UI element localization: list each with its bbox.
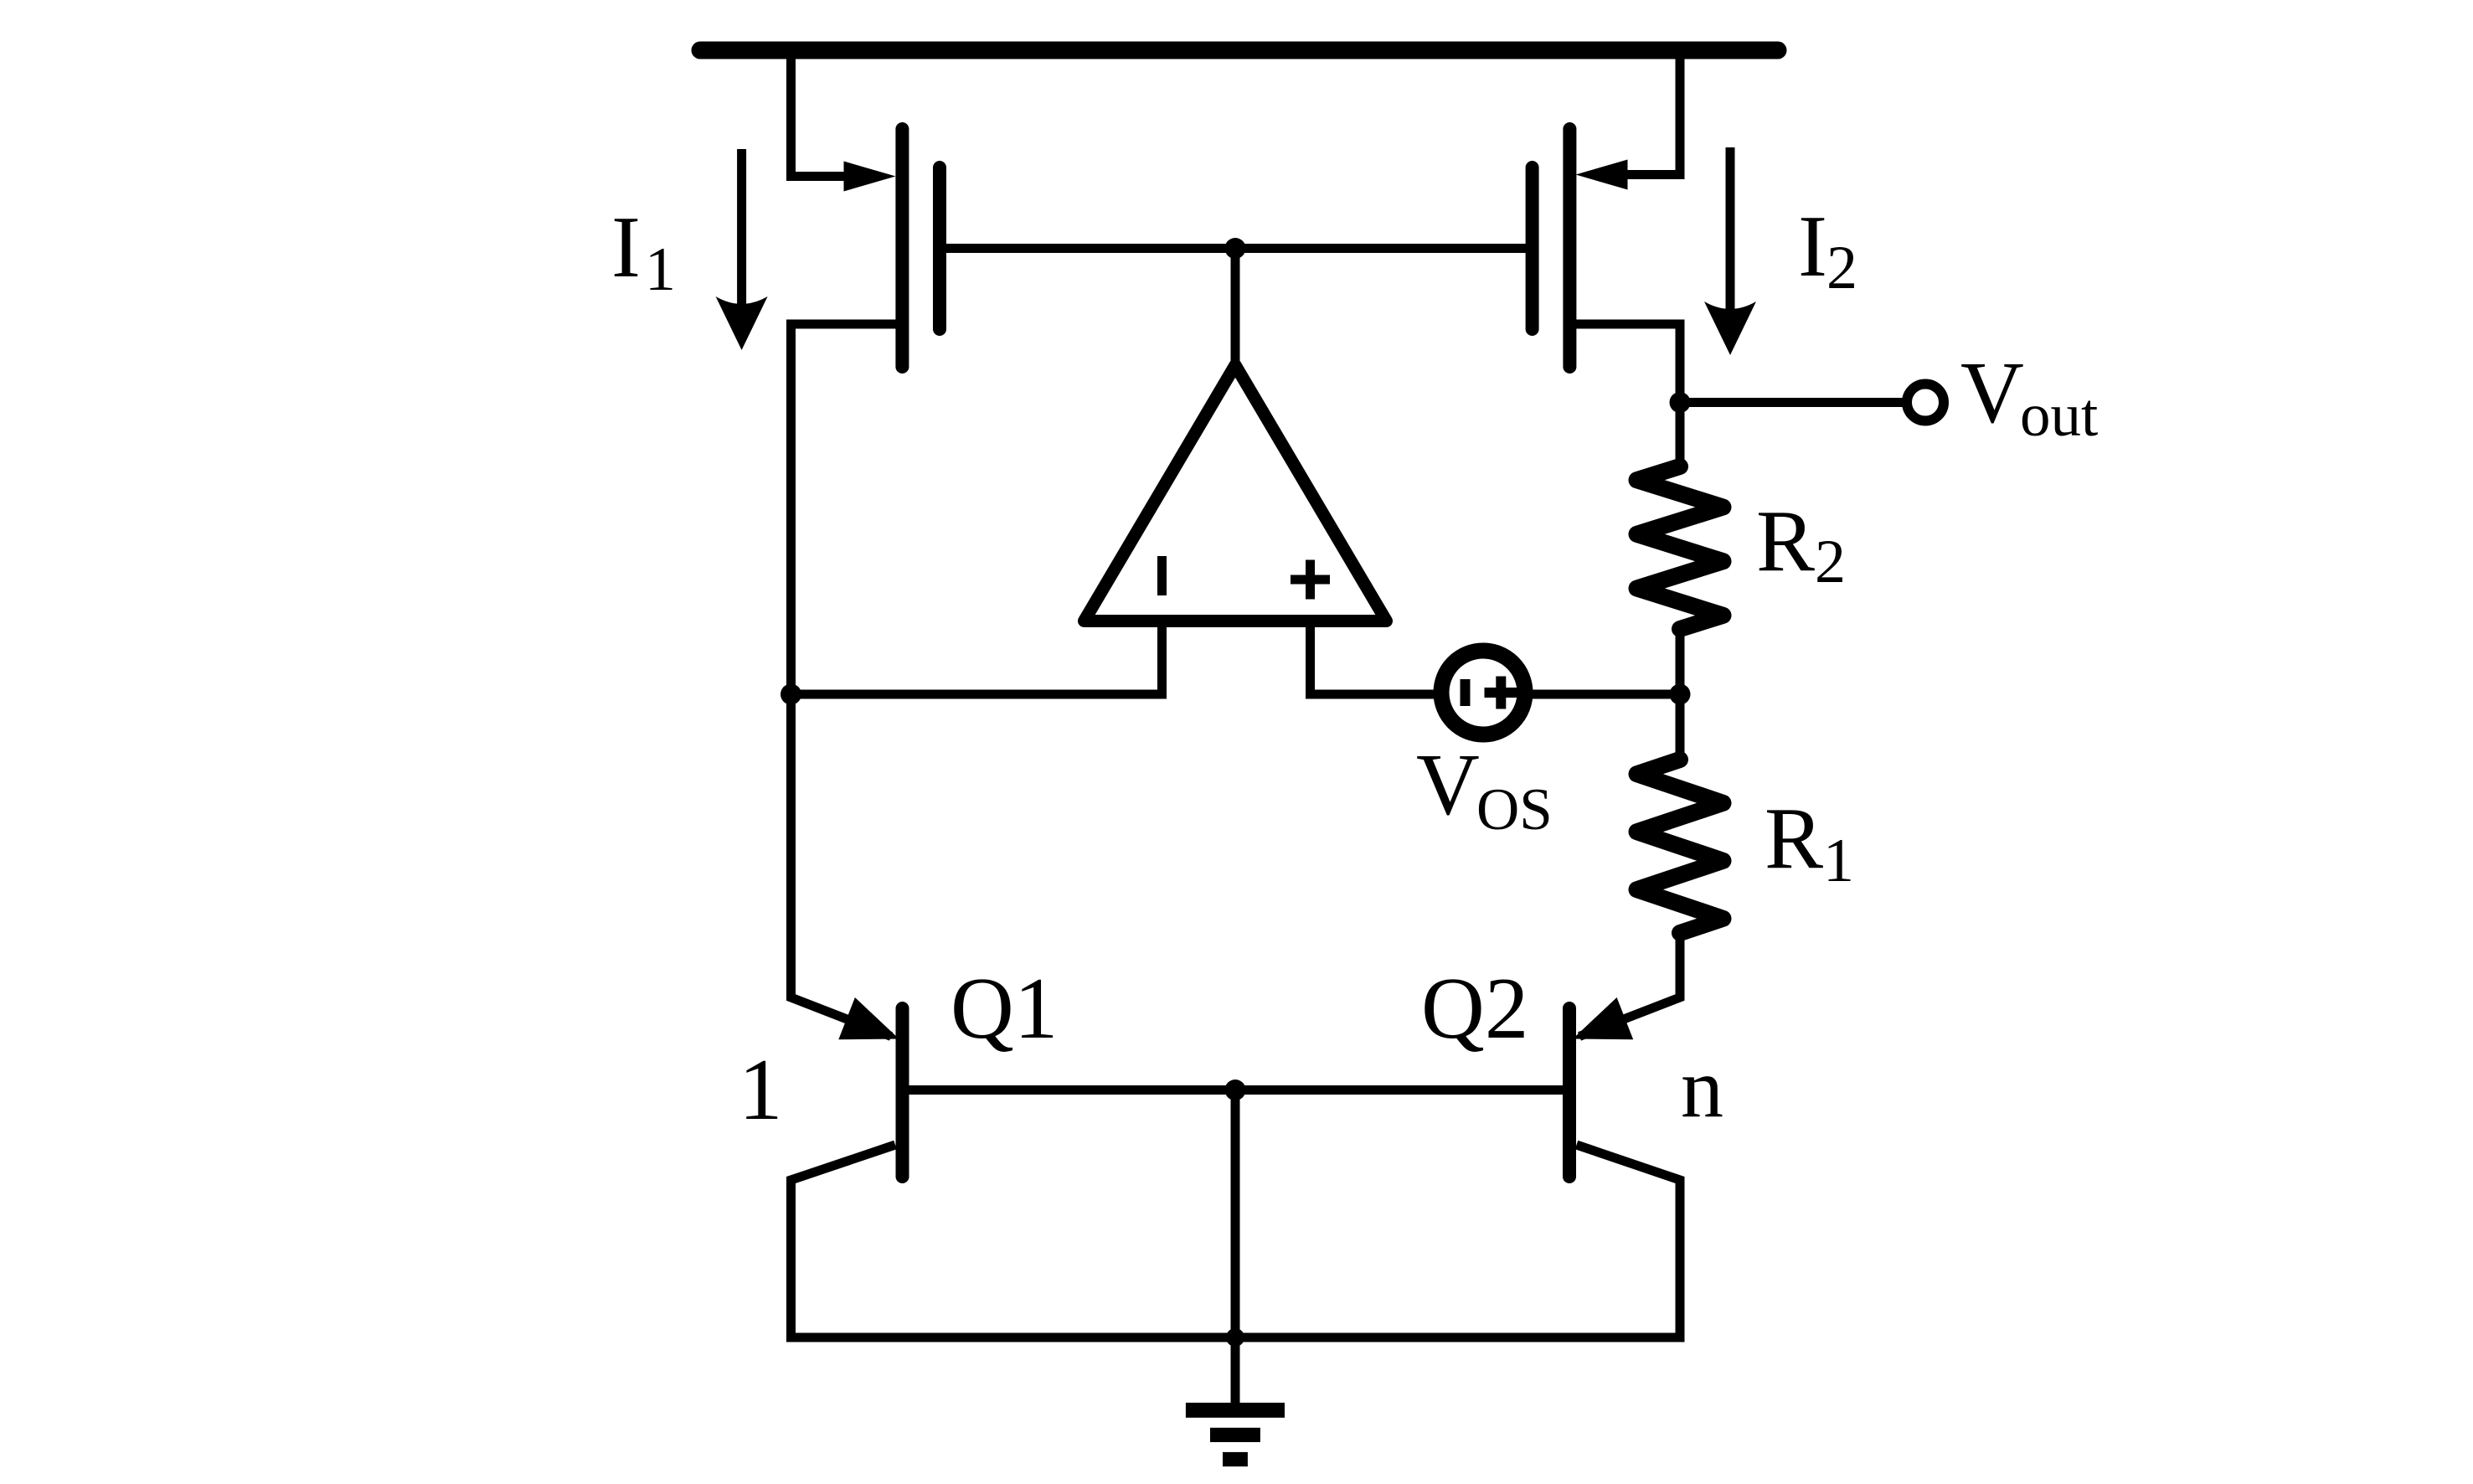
svg-text:OS: OS — [1476, 777, 1553, 842]
I2 current arrowhead — [1704, 301, 1756, 355]
I2 current arrow shaft — [1726, 147, 1735, 322]
voltage source VOS circle — [1441, 651, 1525, 734]
pmos M1 gate bar — [933, 167, 946, 329]
node Vout junction (M2 drain / R2) — [1670, 392, 1691, 413]
svg-text:I: I — [611, 198, 641, 296]
op-amp U1 triangle — [1085, 365, 1387, 621]
node gate net junction — [1225, 238, 1246, 259]
bjt Q2 bar — [1563, 1008, 1576, 1177]
wire M2 drain — [1576, 324, 1680, 403]
pmos M2 channel bar — [1563, 129, 1576, 367]
svg-text:I: I — [1798, 197, 1827, 295]
wire R2 to node B — [1676, 629, 1685, 694]
node bottom rail junction — [1226, 1328, 1244, 1347]
wire op-amp noninverting input to VOS — [1311, 626, 1446, 694]
wire gate net M1-M2 — [945, 244, 1528, 253]
wire gate node to op-amp output — [1231, 249, 1240, 366]
resistor R1 — [1637, 760, 1723, 933]
Q2 emitter arrow — [1573, 997, 1633, 1039]
wire Q1 collector + bottom rail + Q2 collector — [791, 1145, 1681, 1337]
Q1 emitter arrow — [838, 997, 899, 1039]
M2 source arrow — [1576, 160, 1628, 190]
wire ground stub — [1231, 1337, 1240, 1404]
wire M1 drain — [791, 324, 896, 695]
svg-text:V: V — [1416, 735, 1480, 833]
svg-text:R: R — [1765, 789, 1823, 887]
svg-text:V: V — [1960, 343, 2024, 441]
VOS plus marker — [1485, 677, 1518, 709]
wire node B to R1 — [1676, 694, 1685, 762]
wire M1 source from rail — [791, 50, 850, 177]
wire VDD supply rail — [700, 42, 1778, 59]
svg-text:Q1: Q1 — [951, 959, 1058, 1057]
wire R1 to Q2 emitter — [1579, 933, 1680, 1037]
svg-text:1: 1 — [1823, 827, 1854, 895]
pmos M1 channel bar — [895, 129, 909, 367]
pmos M2 gate bar — [1526, 167, 1539, 329]
wire VOS to node B — [1521, 690, 1680, 699]
svg-text:R: R — [1756, 492, 1815, 590]
wire op-amp inverting input to node A — [791, 626, 1162, 694]
node B junction (R2/R1/VOS) — [1670, 684, 1691, 705]
M1 source arrow — [844, 162, 896, 192]
svg-text:2: 2 — [1815, 528, 1846, 596]
svg-text:out: out — [2020, 381, 2098, 449]
wire Q1-Q2 base net — [909, 1085, 1564, 1095]
I1 current arrowhead — [716, 296, 768, 350]
ground symbol — [1186, 1403, 1285, 1418]
op-amp U1 plus marker — [1291, 560, 1330, 600]
wire to Vout terminal — [1680, 398, 1903, 407]
wire base net to ground rail — [1231, 1090, 1240, 1338]
resistor R2 — [1637, 466, 1723, 629]
Vout terminal circle — [1907, 384, 1944, 421]
op-amp U1 minus marker — [1157, 556, 1167, 595]
node base net junction — [1225, 1080, 1246, 1100]
VOS minus marker — [1461, 679, 1471, 706]
wire node A to Q1 emitter — [791, 694, 892, 1037]
node A junction (M1 drain / Q1 emitter / op-amp -) — [781, 684, 801, 705]
svg-text:1: 1 — [739, 1040, 783, 1138]
svg-text:1: 1 — [645, 235, 676, 304]
svg-text:2: 2 — [1826, 234, 1857, 302]
wire Vout node to R2 — [1676, 403, 1685, 470]
svg-text:Q2: Q2 — [1421, 959, 1528, 1057]
bjt Q1 bar — [896, 1008, 909, 1177]
wire M2 source from rail — [1622, 50, 1680, 175]
svg-text:n: n — [1681, 1041, 1723, 1136]
I1 current arrow shaft — [737, 149, 746, 318]
